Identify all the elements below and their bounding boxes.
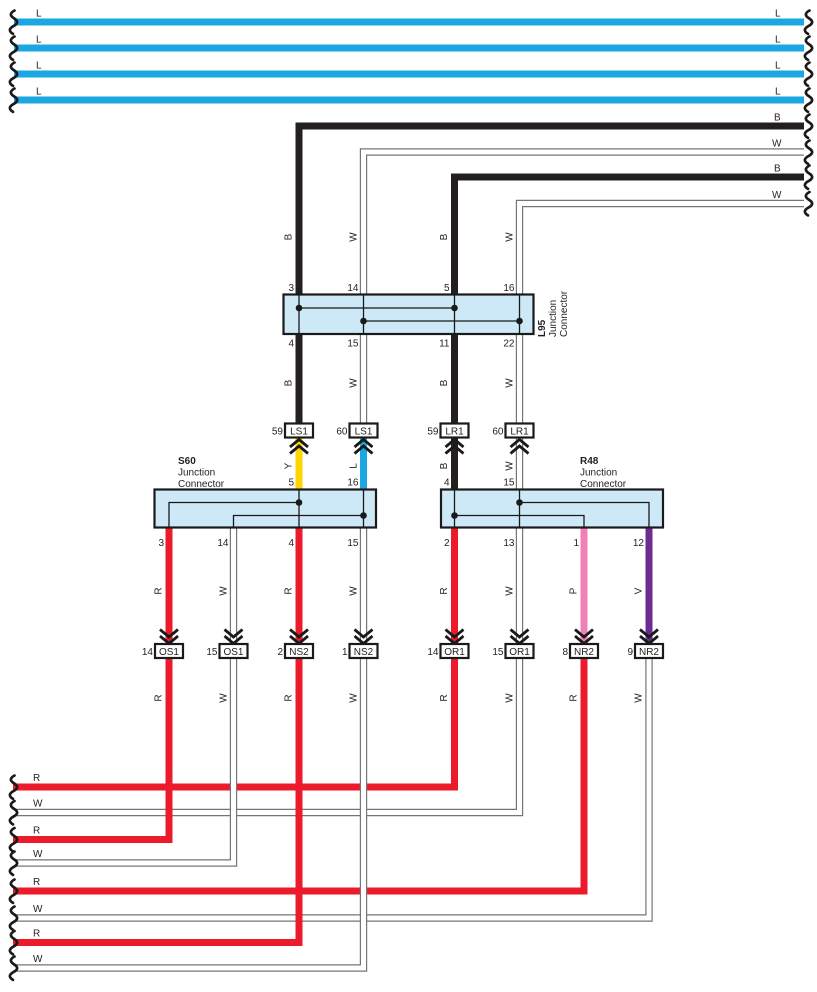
svg-text:OR1: OR1	[509, 647, 530, 658]
wire W from OS1 pin 15 down and left (row 4 white)	[13, 651, 234, 863]
svg-text:L: L	[36, 35, 42, 46]
svg-text:15: 15	[492, 647, 504, 658]
svg-text:W: W	[772, 139, 782, 150]
wire break squiggle B wire2 right	[805, 166, 812, 189]
svg-text:W: W	[219, 693, 230, 703]
svg-text:W: W	[634, 693, 645, 703]
connector NS2 pin 2 box	[285, 644, 313, 658]
R48 lower bus wire to pin 1	[455, 516, 585, 528]
connector OS1 pin 14 box	[155, 644, 183, 658]
svg-text:OR1: OR1	[444, 647, 465, 658]
wire W from S60 pin 15 down to NS2	[360, 528, 367, 652]
svg-text:W: W	[505, 378, 516, 388]
S60 lower bus wire to pin 14	[234, 516, 364, 528]
svg-text:12: 12	[633, 538, 645, 549]
svg-text:Junction: Junction	[178, 468, 215, 479]
svg-text:R: R	[33, 773, 40, 784]
svg-text:W: W	[33, 904, 43, 915]
svg-text:16: 16	[347, 478, 359, 489]
S60 upper bus wire to pin 3	[169, 503, 299, 528]
svg-text:L: L	[36, 61, 42, 72]
svg-text:W: W	[33, 954, 43, 965]
connector LR1 pin 59 chevron up	[446, 440, 464, 454]
wire R from OR1 pin 14 down and left (row 1 red)	[13, 651, 455, 787]
wire Y from LS1-59 down to S60 pin 5	[296, 438, 303, 491]
svg-text:8: 8	[562, 647, 568, 658]
svg-text:V: V	[634, 587, 645, 594]
svg-text:P: P	[569, 587, 580, 594]
svg-text:60: 60	[336, 427, 348, 438]
svg-text:NS2: NS2	[289, 647, 309, 658]
svg-text:59: 59	[427, 427, 439, 438]
wire break squiggle bottom row 3	[10, 828, 17, 851]
svg-text:14: 14	[142, 647, 154, 658]
svg-text:22: 22	[503, 339, 515, 350]
wire break squiggle bottom row 6	[10, 907, 17, 930]
connector LS1 pin 60 chevron up	[355, 440, 373, 454]
svg-text:L: L	[349, 463, 360, 469]
svg-text:R: R	[33, 826, 40, 837]
junction connector L95 box	[284, 295, 534, 335]
L95 lower bus wire	[364, 320, 520, 322]
svg-text:15: 15	[503, 478, 515, 489]
svg-text:Junction: Junction	[580, 468, 617, 479]
svg-text:L: L	[775, 35, 781, 46]
svg-text:S60: S60	[178, 456, 196, 467]
wire R from S60 pin 4 down to NS2	[296, 528, 303, 652]
wire L blue 2	[14, 45, 804, 52]
connector LS1 pin 60 box	[350, 424, 378, 438]
wire break squiggle B wire1 right	[805, 115, 812, 138]
connector LS1 pin 59 chevron up	[290, 440, 308, 454]
wire W from NR2 pin 9 down and left (row 6 white)	[13, 651, 649, 918]
junction connector R48 box	[441, 490, 663, 528]
connector OS1 pin 14 chevron down	[160, 630, 178, 644]
svg-text:R: R	[33, 929, 40, 940]
svg-text:15: 15	[347, 339, 359, 350]
S60 internal wire pin 16 to 15	[363, 490, 365, 528]
svg-text:W: W	[505, 232, 516, 242]
svg-text:W: W	[33, 799, 43, 810]
svg-text:15: 15	[206, 647, 218, 658]
connector OR1 pin 14 box	[441, 644, 469, 658]
wire R from OS1 pin 14 down and left (row 3 red)	[13, 651, 169, 840]
wire break squiggle L wire1 left	[10, 11, 17, 34]
svg-text:LR1: LR1	[510, 427, 529, 438]
wire B from LR1-59 down to R48 pin 4	[451, 438, 458, 491]
wire break squiggle bottom row 2	[10, 801, 17, 824]
svg-text:OS1: OS1	[223, 647, 243, 658]
svg-text:4: 4	[288, 339, 294, 350]
svg-text:L: L	[775, 61, 781, 72]
wire break squiggle bottom row 7	[10, 931, 17, 954]
svg-text:2: 2	[444, 538, 450, 549]
svg-text:4: 4	[444, 478, 450, 489]
svg-text:14: 14	[427, 647, 439, 658]
svg-text:LS1: LS1	[290, 427, 308, 438]
connector OR1 pin 15 box	[506, 644, 534, 658]
connector OR1 pin 14 chevron down	[446, 630, 464, 644]
L95 bus junction dot at pin 14 wire	[360, 318, 367, 325]
wire W from right edge to L95 pin 16	[520, 204, 805, 297]
svg-text:Connector: Connector	[178, 479, 225, 490]
wire W from LR1-60 down to R48 pin 15	[516, 438, 523, 491]
L95 internal wire pin 3 to 4	[298, 295, 300, 334]
svg-text:L: L	[775, 9, 781, 20]
connector LS1 pin 59 box	[285, 424, 313, 438]
svg-text:LS1: LS1	[355, 427, 373, 438]
wire V from R48 pin 12 down to NR2	[646, 528, 653, 652]
connector NS2 pin 1 box	[350, 644, 378, 658]
svg-text:NR2: NR2	[639, 647, 659, 658]
svg-text:B: B	[439, 462, 450, 469]
wire break squiggle bottom row 1	[10, 776, 17, 799]
connector NR2 pin 8 chevron down	[575, 630, 593, 644]
svg-text:9: 9	[627, 647, 633, 658]
svg-text:B: B	[439, 233, 450, 240]
svg-text:W: W	[349, 693, 360, 703]
L95 internal wire pin 16 to 22	[519, 295, 521, 334]
connector NR2 pin 9 box	[635, 644, 663, 658]
S60 bus junction dot at pin 4 wire	[296, 499, 303, 506]
wire B from L95 pin 4 down to LS1-59	[296, 333, 303, 425]
svg-text:NR2: NR2	[574, 647, 594, 658]
wire break squiggle bottom row 4	[10, 852, 17, 875]
wire L blue 4	[14, 97, 804, 104]
svg-text:W: W	[772, 190, 782, 201]
svg-text:L: L	[36, 87, 42, 98]
wire break squiggle L wire3 left	[10, 63, 17, 86]
svg-text:Y: Y	[284, 462, 295, 469]
R48 bus junction dot at pin 2 wire	[451, 512, 458, 519]
connector NS2 pin 2 chevron down	[290, 630, 308, 644]
svg-text:R: R	[284, 587, 295, 594]
svg-text:3: 3	[288, 283, 294, 294]
wire W from OR1 pin 15 down and left (row 2 white)	[13, 651, 520, 813]
svg-text:R: R	[154, 587, 165, 594]
L95 internal wire pin 14 to 15	[363, 295, 365, 334]
svg-text:16: 16	[503, 283, 515, 294]
connector OR1 pin 15 chevron down	[511, 630, 529, 644]
wire break squiggle W wire2 right	[805, 192, 812, 215]
svg-text:11: 11	[439, 339, 450, 350]
connector NR2 pin 9 chevron down	[640, 630, 658, 644]
wire W from L95 pin 15 down to LS1-60	[360, 333, 367, 425]
wire B from right edge to L95 pin 3	[299, 126, 804, 296]
wire P from R48 pin 1 down to NR2	[581, 528, 588, 652]
wire break squiggle L wire2 right	[805, 37, 812, 60]
svg-text:W: W	[33, 849, 43, 860]
svg-text:5: 5	[288, 478, 294, 489]
wire W from R48 pin 13 down to OR1	[516, 528, 523, 652]
svg-text:B: B	[439, 379, 450, 386]
svg-text:R: R	[439, 587, 450, 594]
wire B from L95 pin 11 down to LR1-59	[451, 333, 458, 425]
svg-text:14: 14	[347, 283, 359, 294]
wire B from right edge to L95 pin 5	[455, 177, 805, 296]
svg-text:R: R	[154, 694, 165, 701]
L95 internal wire pin 5 to 11	[454, 295, 456, 334]
svg-text:L: L	[36, 9, 42, 20]
wire break squiggle bottom row 8	[10, 957, 17, 980]
wire R from NR2 pin 8 down and left (row 5 red)	[13, 651, 584, 891]
R48 internal wire pin 15 to 13	[519, 490, 521, 528]
svg-text:2: 2	[277, 647, 283, 658]
svg-text:B: B	[284, 233, 295, 240]
wire W from S60 pin 14 down to OS1	[230, 528, 237, 652]
wire break squiggle L wire4 left	[10, 89, 17, 112]
svg-text:B: B	[774, 113, 781, 124]
wire R from S60 pin 3 down to OS1	[166, 528, 173, 652]
svg-text:R48: R48	[580, 456, 599, 467]
connector NS2 pin 1 chevron down	[355, 630, 373, 644]
connector OS1 pin 15 chevron down	[225, 630, 243, 644]
svg-text:W: W	[349, 378, 360, 388]
svg-text:W: W	[505, 461, 516, 471]
R48 upper bus wire to pin 12	[520, 503, 650, 528]
svg-text:B: B	[284, 379, 295, 386]
wire R from NS2 pin 2 down and left (row 7 red)	[13, 651, 299, 943]
svg-text:5: 5	[444, 283, 450, 294]
svg-text:1: 1	[342, 647, 348, 658]
svg-text:13: 13	[503, 538, 515, 549]
junction connector S60 box	[155, 490, 377, 528]
svg-text:Connector: Connector	[559, 290, 570, 337]
wire break squiggle W wire1 right	[805, 141, 812, 164]
wire L from LS1-60 down to S60 pin 16	[360, 438, 367, 491]
S60 bus junction dot at pin 15 wire	[360, 512, 367, 519]
svg-text:3: 3	[158, 538, 164, 549]
svg-text:LR1: LR1	[445, 427, 464, 438]
svg-text:W: W	[505, 586, 516, 596]
wire break squiggle L wire1 right	[805, 11, 812, 34]
svg-text:Connector: Connector	[580, 479, 627, 490]
R48 internal wire pin 4 to 2	[454, 490, 456, 528]
wire W from right edge to L95 pin 14	[364, 152, 805, 296]
connector LR1 pin 60 chevron up	[511, 440, 529, 454]
wire break squiggle L wire4 right	[805, 89, 812, 112]
svg-text:R: R	[569, 694, 580, 701]
L95 bus junction dot at pin 3 wire	[296, 305, 303, 312]
svg-text:15: 15	[347, 538, 359, 549]
svg-text:59: 59	[272, 427, 284, 438]
L95 bus junction dot at pin 16 wire	[516, 318, 523, 325]
S60 internal wire pin 5 to 4	[298, 490, 300, 528]
L95 bus junction dot at pin 5 wire	[451, 305, 458, 312]
svg-text:R: R	[33, 877, 40, 888]
wire W from NS2 pin 1 down and left (row 8 white)	[13, 651, 364, 968]
svg-text:R: R	[439, 694, 450, 701]
connector LR1 pin 60 box	[506, 424, 534, 438]
connector OS1 pin 15 box	[220, 644, 248, 658]
svg-text:L95: L95	[537, 319, 548, 337]
svg-text:R: R	[284, 694, 295, 701]
svg-text:W: W	[219, 586, 230, 596]
wire break squiggle L wire2 left	[10, 37, 17, 60]
svg-text:14: 14	[217, 538, 229, 549]
wire break squiggle L wire3 right	[805, 63, 812, 86]
svg-text:60: 60	[492, 427, 504, 438]
svg-text:B: B	[774, 164, 781, 175]
svg-text:W: W	[349, 232, 360, 242]
R48 bus junction dot at pin 13 wire	[516, 499, 523, 506]
wire break squiggle bottom row 5	[10, 880, 17, 903]
svg-text:Junction: Junction	[548, 300, 559, 337]
svg-text:NS2: NS2	[354, 647, 374, 658]
wire W from L95 pin 22 down to LR1-60	[516, 333, 523, 425]
L95 upper bus wire	[299, 307, 455, 309]
wire L blue 1	[14, 19, 804, 26]
connector NR2 pin 8 box	[570, 644, 598, 658]
wire R from R48 pin 2 down to OR1	[451, 528, 458, 652]
svg-text:OS1: OS1	[159, 647, 179, 658]
svg-text:W: W	[505, 693, 516, 703]
svg-text:L: L	[775, 87, 781, 98]
svg-text:4: 4	[288, 538, 294, 549]
svg-text:W: W	[349, 586, 360, 596]
svg-text:1: 1	[573, 538, 579, 549]
wire L blue 3	[14, 71, 804, 78]
connector LR1 pin 59 box	[441, 424, 469, 438]
